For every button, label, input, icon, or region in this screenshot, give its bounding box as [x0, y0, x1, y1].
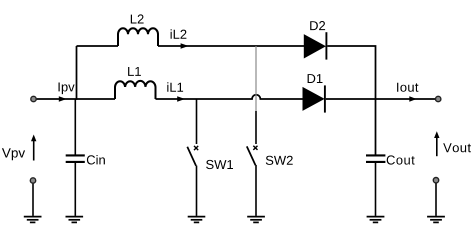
capacitor Cin [66, 155, 85, 162]
wire D2 cathode to output corner [327, 46, 375, 99]
ground (Cout) [367, 217, 385, 223]
lower right terminal [433, 178, 438, 183]
lower left terminal lead [32, 184, 34, 216]
Cout bottom lead [375, 163, 377, 216]
wire L2 to D2 [158, 45, 304, 47]
Vpv arrow [31, 135, 36, 161]
lower left terminal [30, 178, 35, 183]
capacitor Cout lead from node B [375, 99, 377, 155]
Cout label [387, 155, 415, 164]
ground (right terminal) [427, 217, 445, 223]
Iout label [397, 83, 418, 92]
SW2 label [266, 156, 293, 165]
ground (Cin) [66, 217, 84, 223]
wire input terminal to node A [37, 98, 77, 100]
inductor L1 [115, 81, 156, 99]
L2 label [131, 14, 144, 23]
SW1 label [206, 160, 233, 169]
Vout arrow [434, 131, 439, 156]
switch SW1 bottom lead [196, 166, 198, 216]
diode D1 [303, 85, 325, 112]
switch SW2 mid lead [255, 111, 257, 144]
Iout current arrow [409, 96, 416, 101]
Vpv label [2, 148, 25, 160]
switch SW2 top lead (from L2 branch, thin gray) [255, 46, 257, 111]
input terminal (top left) [31, 96, 36, 101]
L1 label [128, 67, 141, 76]
wire D1 cathode to output node B [326, 98, 436, 100]
wire node A to L1 [77, 98, 115, 100]
iL1 label [167, 82, 183, 91]
node A vertical wire (junction to L2 branch and Cin) [75, 46, 76, 155]
ground (SW2) [247, 217, 265, 223]
capacitor Cout [366, 155, 385, 162]
switch SW1 top lead [196, 99, 198, 144]
wire L1 to D1 with crossover hop over SW2 line [156, 95, 304, 99]
output terminal (top right) [436, 96, 441, 101]
Vout label [443, 143, 471, 152]
D1 label [308, 74, 323, 83]
Ipv current arrow [59, 96, 67, 101]
switch SW2 bottom lead [255, 165, 257, 216]
iL2 current arrow [181, 43, 189, 48]
lower right terminal lead [435, 183, 437, 216]
diode D2 [304, 32, 326, 59]
switch SW2 blade [247, 146, 256, 165]
iL1 current arrow [177, 96, 185, 101]
ground (left terminal) [24, 217, 42, 223]
wire node A to L2 [77, 45, 119, 47]
Cin label [87, 155, 105, 165]
ground (SW1) [188, 217, 206, 223]
D2 label [310, 21, 325, 30]
Cin bottom lead [74, 163, 76, 216]
switch SW2 contact x-mark [253, 146, 257, 150]
switch SW1 blade [187, 147, 196, 166]
iL2 label [171, 29, 187, 38]
switch SW1 contact x-mark [194, 146, 198, 150]
inductor L2 [118, 28, 158, 46]
Ipv label [59, 83, 75, 95]
